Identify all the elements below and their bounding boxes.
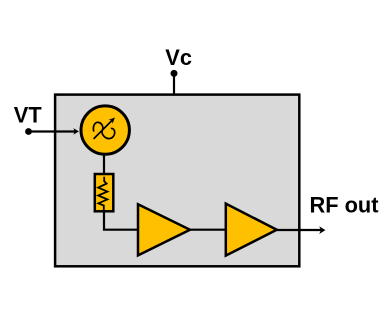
- node Vc terminal dot: [171, 70, 178, 77]
- resistor R1 box: [95, 174, 114, 211]
- wire A1 to A2: [190, 229, 225, 231]
- enclosure box: [55, 95, 299, 267]
- wire resistor to amplifier A1 (down then right): [104, 211, 137, 229]
- VCO tuning arrow: [94, 118, 115, 139]
- amplifier A2: [226, 204, 277, 256]
- wire VT input with arrowhead: [29, 128, 79, 135]
- svg-text:VT: VT: [14, 102, 43, 127]
- svg-text:RF out: RF out: [310, 193, 379, 218]
- wire RF output with arrowhead: [277, 226, 326, 234]
- wire VCO to resistor: [103, 156, 105, 174]
- resistor R1 zigzag: [98, 177, 107, 210]
- amplifier A1: [138, 204, 190, 255]
- wire Vc to box: [173, 73, 175, 94]
- oscillator U1 VCO circle: [81, 106, 129, 154]
- node VT terminal dot: [25, 128, 32, 135]
- svg-text:Vc: Vc: [165, 45, 192, 70]
- VCO sine squiggle: [93, 122, 114, 138]
